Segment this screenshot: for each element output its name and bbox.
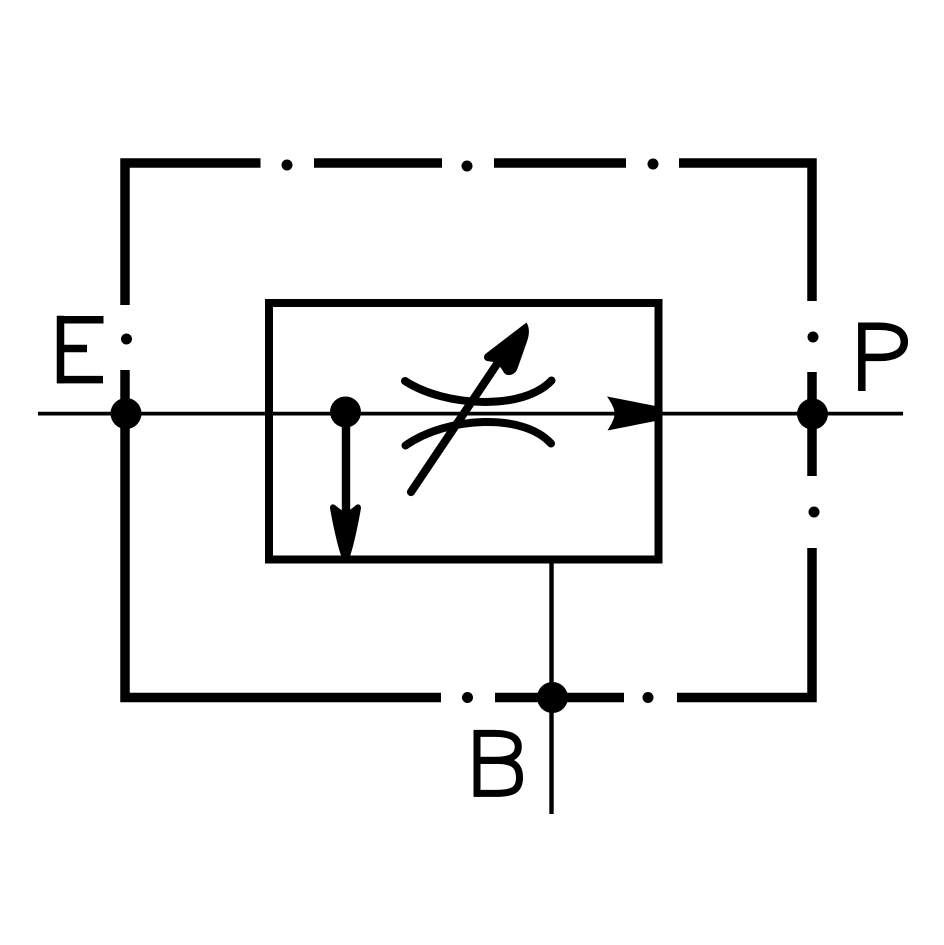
enclosure dash-dot border: top-left corner dash bbox=[125, 163, 261, 305]
compensator drain arrow shaft bbox=[342, 412, 350, 528]
adjustability arrow shaft bbox=[411, 364, 497, 492]
enclosure right dot 1 bbox=[808, 332, 819, 343]
wire: drain line from valve to port B bbox=[549, 559, 553, 814]
adjustability arrowhead bbox=[484, 323, 529, 376]
enclosure top dash 3 bbox=[494, 158, 626, 168]
port label B bbox=[474, 730, 520, 797]
flow direction arrowhead bbox=[607, 397, 656, 431]
enclosure top dash 2 bbox=[314, 158, 442, 168]
enclosure top dot 3 bbox=[648, 159, 659, 170]
enclosure right dot 2 bbox=[809, 507, 820, 518]
enclosure dash-dot border: top-right corner dash bbox=[679, 163, 812, 301]
throttle orifice top curve bbox=[405, 381, 552, 402]
enclosure dash-dot border: bottom-left corner dash bbox=[125, 370, 441, 698]
port label P bbox=[859, 323, 905, 392]
node: port E junction bbox=[111, 398, 142, 429]
enclosure bottom dot 1 bbox=[462, 692, 473, 703]
enclosure dash-dot border: bottom-right corner dash bbox=[677, 548, 812, 698]
node: port P junction bbox=[797, 399, 828, 430]
enclosure bottom dot 2 bbox=[643, 692, 654, 703]
enclosure right dash 2 bbox=[807, 372, 817, 476]
enclosure top dot 2 bbox=[462, 161, 473, 172]
compensator drain arrowhead bbox=[330, 504, 361, 555]
enclosure left dot 1 bbox=[121, 334, 132, 345]
enclosure top dot 1 bbox=[282, 160, 293, 171]
wire: main flow line from port E to port P bbox=[38, 412, 903, 416]
node: internal junction bbox=[330, 397, 361, 428]
enclosure bottom dash 2 bbox=[495, 693, 624, 703]
node: port B junction bbox=[537, 682, 568, 713]
port label E bbox=[57, 316, 104, 384]
throttle orifice bottom curve bbox=[406, 422, 552, 446]
valve body box bbox=[269, 303, 659, 560]
